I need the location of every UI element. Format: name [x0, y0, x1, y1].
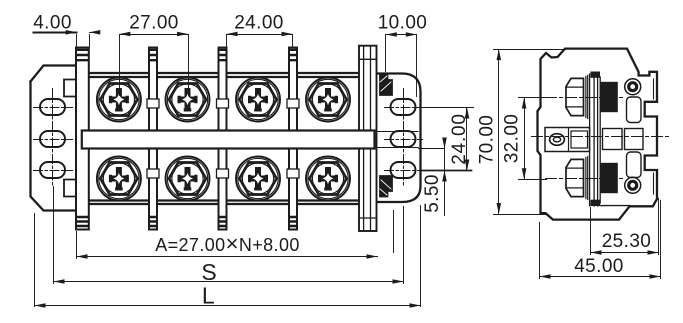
- svg-text:5.50: 5.50: [422, 174, 443, 213]
- bolt circle top: [625, 79, 641, 95]
- svg-text:4.00: 4.00: [33, 13, 72, 34]
- screws: [97, 78, 350, 201]
- right mounting bracket: [378, 74, 421, 203]
- terminal screw at (187.5,178.5): [166, 157, 210, 201]
- svg-text:27.00: 27.00: [129, 13, 179, 34]
- body bottom edge: [89, 201, 360, 205]
- svg-text:45.00: 45.00: [574, 256, 624, 277]
- dim 24.00 right vertical: [415, 107, 474, 109]
- dim 45.00: [540, 276, 661, 278]
- center fixing detail: [545, 128, 590, 152]
- svg-text:L: L: [202, 283, 215, 309]
- svg-text:24.00: 24.00: [449, 113, 470, 165]
- svg-text:S: S: [201, 259, 217, 285]
- right end wall: [359, 46, 377, 231]
- central clamp plate: [590, 74, 601, 206]
- terminal screw at (187.5,99.5): [166, 78, 210, 122]
- dim S: [54, 281, 404, 283]
- right bracket ovals: [391, 99, 416, 178]
- left end wall: [76, 48, 89, 230]
- dim 27.00: [120, 34, 189, 36]
- busbar strip: [82, 131, 375, 149]
- interior panels: [603, 129, 623, 150]
- black clamp tab top right: [380, 74, 393, 96]
- svg-text:25.30: 25.30: [602, 231, 652, 252]
- dim 24.00 top: [227, 34, 293, 36]
- terminal screw at (258,99.5): [236, 78, 280, 122]
- svg-text:70.00: 70.00: [477, 115, 498, 165]
- hex screw side view at y=178.0: [566, 157, 618, 200]
- bolt circle bottom: [625, 177, 641, 193]
- side view body outline: [538, 49, 658, 220]
- partition wall 3: [217, 48, 229, 230]
- hex screw side view at y=97.0: [566, 76, 618, 119]
- partition wall 4: [287, 48, 299, 230]
- terminal screw at (328,178.5): [306, 157, 350, 201]
- oval centerlines: [34, 89, 73, 186]
- dim 70.00: [498, 50, 500, 215]
- dim 5.50: [419, 148, 445, 150]
- terminal screw at (328,99.5): [306, 78, 350, 122]
- svg-text:24.00: 24.00: [234, 13, 284, 34]
- svg-text:32.00: 32.00: [502, 114, 523, 164]
- dim 4.00: [34, 32, 77, 34]
- dim 25.30: [591, 252, 659, 254]
- DIN claw inner lines: [653, 79, 655, 194]
- dim L: [35, 305, 421, 307]
- dim A=27.00xN+8.00: [77, 256, 378, 258]
- svg-text:A=27.00×N+8.00: A=27.00×N+8.00: [155, 231, 300, 256]
- centerlines: [532, 98, 669, 179]
- partition wall 2: [147, 48, 159, 230]
- svg-text:10.00: 10.00: [378, 13, 428, 34]
- dim 10.00: [386, 34, 417, 36]
- black clamp tab bottom right: [380, 176, 393, 198]
- bottom inner ledge: [600, 205, 630, 207]
- dim 32.00: [524, 98, 526, 180]
- body top edge: [89, 73, 360, 77]
- terminal screw at (118.9,178.5): [97, 157, 141, 201]
- terminal screw at (258,178.5): [236, 157, 280, 201]
- terminal screw at (118.9,99.5): [97, 78, 141, 122]
- left end plate bracket: [31, 66, 77, 211]
- left bracket oval holes: [40, 99, 65, 178]
